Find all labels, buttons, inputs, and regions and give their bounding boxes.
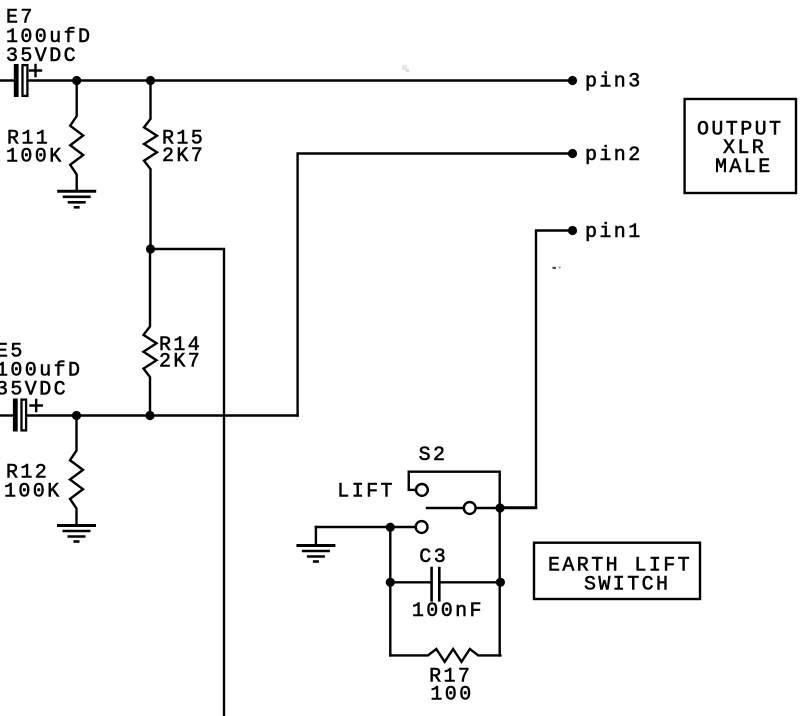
svg-text:SWITCH: SWITCH [584, 574, 670, 597]
svg-text:100K: 100K [4, 480, 62, 503]
svg-text:100nF: 100nF [412, 600, 484, 623]
svg-text:pin1: pin1 [585, 221, 643, 244]
svg-text:100: 100 [430, 684, 473, 707]
svg-text:LIFT: LIFT [337, 481, 395, 504]
svg-text:C3: C3 [419, 546, 448, 569]
svg-text:35VDC: 35VDC [6, 45, 78, 68]
svg-text:2K7: 2K7 [162, 145, 205, 168]
svg-text:pin2: pin2 [585, 144, 643, 167]
svg-text:MALE: MALE [715, 156, 773, 179]
svg-text:35VDC: 35VDC [0, 379, 68, 402]
svg-text:100K: 100K [6, 146, 64, 169]
svg-text:pin3: pin3 [585, 71, 643, 94]
svg-text:S2: S2 [419, 444, 448, 467]
svg-text:2K7: 2K7 [159, 351, 202, 374]
